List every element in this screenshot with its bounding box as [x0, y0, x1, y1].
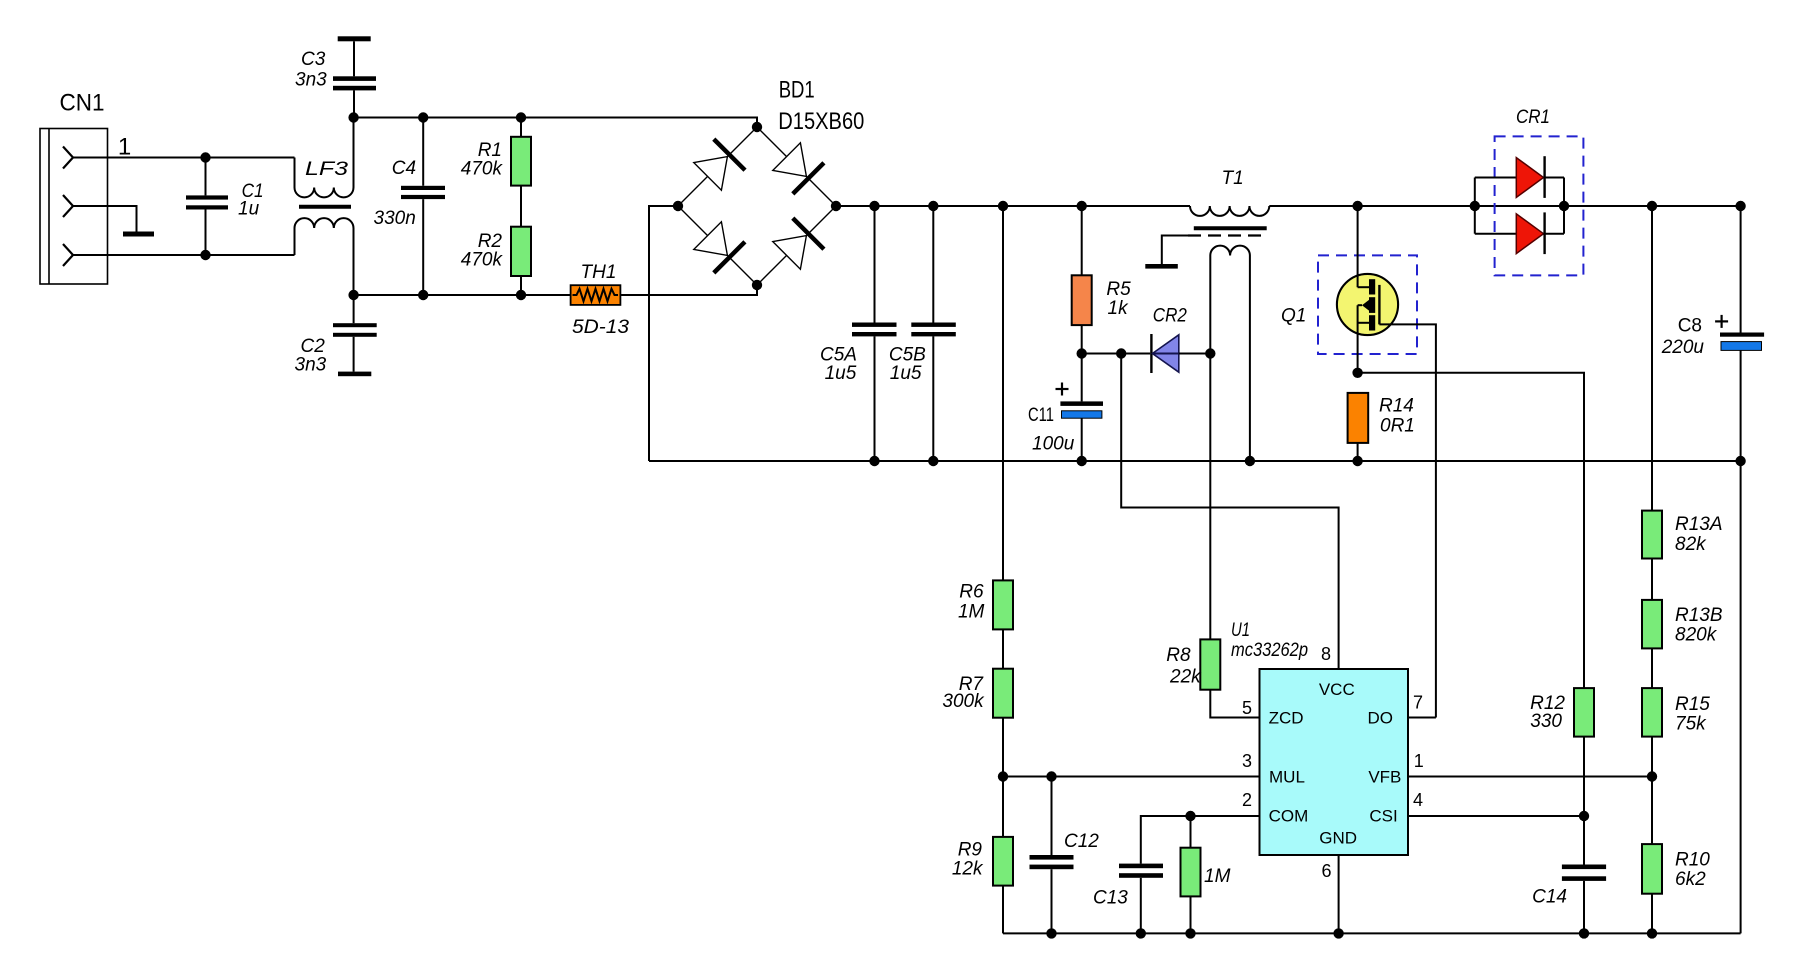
wire: top rail to bridge — [354, 118, 757, 128]
capacitor C2 — [295, 295, 377, 376]
svg-text:220u: 220u — [1661, 337, 1705, 358]
svg-text:1M: 1M — [1204, 866, 1231, 887]
diode BD1 bottom-right — [773, 218, 824, 269]
wire: DO pin 7 stub — [1408, 717, 1436, 719]
resistor R8 — [1166, 639, 1220, 689]
junction: C5A top — [869, 201, 879, 211]
junction: bridge bottom node — [752, 280, 762, 290]
wire: rail to R6 chain — [1002, 206, 1004, 580]
capacitor C13 — [1093, 864, 1163, 934]
svg-text:VCC: VCC — [1319, 680, 1355, 699]
svg-text:1: 1 — [118, 134, 131, 161]
svg-text:mc33262p: mc33262p — [1231, 640, 1308, 661]
svg-text:ZCD: ZCD — [1269, 709, 1304, 728]
diode BD1 bottom-left — [694, 222, 745, 273]
wire: R13B to R15 — [1651, 648, 1653, 688]
wire: MUL pin 3 line — [1003, 776, 1260, 778]
junction: CSI/R12/C14 node — [1579, 811, 1589, 821]
svg-text:3n3: 3n3 — [295, 355, 327, 376]
svg-text:820k: 820k — [1675, 625, 1718, 646]
junction: C2 top — [348, 290, 358, 300]
junction: C5B bottom — [928, 456, 938, 466]
junction: CR1 cathode node — [1559, 201, 1569, 211]
wire: rectified rail (right part) — [1269, 205, 1740, 207]
wire: GND pin 6 stub — [1338, 855, 1340, 934]
svg-text:7: 7 — [1413, 693, 1423, 713]
svg-text:TH1: TH1 — [581, 262, 617, 283]
svg-text:DO: DO — [1368, 709, 1394, 728]
thermistor TH1 — [571, 262, 630, 338]
svg-text:C3: C3 — [301, 49, 326, 70]
junction: bridge right node — [831, 201, 841, 211]
wire: VFB pin 1 line — [1408, 776, 1652, 778]
svg-text:GND: GND — [1319, 829, 1357, 848]
junction: C8 top — [1735, 201, 1745, 211]
svg-text:3: 3 — [1242, 751, 1252, 771]
inductor LF3 (common-mode choke) — [295, 118, 354, 296]
svg-text:CN1: CN1 — [60, 90, 105, 117]
svg-text:1: 1 — [1414, 751, 1424, 771]
svg-text:8: 8 — [1321, 644, 1331, 664]
svg-text:R8: R8 — [1166, 645, 1191, 666]
junction: C5B top — [928, 201, 938, 211]
wire: Q1 gate to U1 DO — [1379, 324, 1436, 717]
svg-text:330: 330 — [1530, 711, 1562, 732]
junction: Q1 drain at rail — [1352, 201, 1362, 211]
resistor R6 — [958, 580, 1013, 629]
capacitor C8 — [1661, 206, 1764, 461]
svg-text:1u5: 1u5 — [825, 363, 857, 384]
svg-text:R15: R15 — [1675, 694, 1710, 715]
capacitor C5A — [820, 206, 897, 461]
svg-text:5: 5 — [1242, 698, 1252, 718]
junction: C11 bottom — [1077, 456, 1087, 466]
wire: bottom row LF3 to TH1 — [354, 294, 571, 296]
junction: C13 bottom — [1136, 928, 1146, 938]
junction: C5A bottom — [869, 456, 879, 466]
svg-text:CR1: CR1 — [1516, 107, 1550, 128]
resistor R13A — [1642, 511, 1723, 559]
resistor R2 — [461, 227, 531, 295]
wire: divider chain from rail — [1651, 206, 1653, 511]
svg-text:3n3: 3n3 — [295, 70, 327, 91]
svg-text:C4: C4 — [392, 158, 416, 179]
svg-text:CR2: CR2 — [1153, 306, 1187, 327]
svg-text:T1: T1 — [1222, 168, 1244, 189]
svg-text:CSI: CSI — [1369, 807, 1397, 826]
junction: R5 at rail — [1077, 201, 1087, 211]
junction: C14 bottom — [1579, 928, 1589, 938]
wire: R13A to R13B — [1651, 559, 1653, 600]
wire: T1 aux winding return — [1249, 256, 1251, 462]
junction: R10 bottom — [1647, 928, 1657, 938]
wire: primary return rail — [649, 460, 1741, 462]
resistor 1M (COM network) — [1181, 816, 1231, 933]
svg-text:R10: R10 — [1675, 850, 1710, 871]
svg-text:COM: COM — [1269, 807, 1309, 826]
wire: T1 aux winding to CR2/R8 — [1209, 256, 1211, 640]
junction: T1 aux return at rail — [1245, 456, 1255, 466]
svg-text:300k: 300k — [942, 691, 985, 712]
wire: R1 to R2 — [520, 186, 522, 227]
diode CR1 bottom — [1516, 212, 1544, 254]
junction: R14 bottom — [1352, 456, 1362, 466]
wire: CN1 pin3 to LF3 bottom — [73, 254, 295, 256]
junction: R1 top — [516, 112, 526, 122]
bridge rectifier BD1 — [678, 77, 864, 286]
wire: right edge return — [1740, 461, 1742, 933]
capacitor C5B — [889, 206, 956, 461]
wire: VCC node (R5/C11/CR2) — [1082, 353, 1151, 355]
svg-text:75k: 75k — [1675, 713, 1707, 734]
resistor R12 — [1530, 688, 1594, 864]
svg-text:R13B: R13B — [1675, 605, 1723, 626]
ground (CN1 pin2) — [123, 232, 154, 237]
svg-text:470k: 470k — [461, 158, 504, 179]
wire: R15 to R10 — [1651, 737, 1653, 845]
wire: COM pin 2 line — [1141, 816, 1260, 864]
resistor R13B — [1642, 600, 1723, 649]
wire: ZCD pin 5 stub — [1210, 690, 1259, 718]
junction: C4 bottom — [418, 290, 428, 300]
svg-text:C11: C11 — [1028, 405, 1054, 426]
resistor R7 — [942, 669, 1013, 777]
junction: R7/R9 divider node — [998, 771, 1008, 781]
resistor R15 — [1642, 688, 1710, 737]
svg-text:Q1: Q1 — [1281, 306, 1306, 327]
junction: Q1 source node — [1352, 368, 1362, 378]
resistor R10 — [1642, 844, 1710, 933]
svg-text:1u: 1u — [238, 199, 260, 220]
wire: rectified rail (left part) — [836, 205, 1190, 207]
svg-text:12k: 12k — [952, 858, 984, 879]
junction: 1M bottom — [1185, 928, 1195, 938]
junction: R5/C11 node — [1077, 348, 1087, 358]
junction: CR2 anode / ZCD winding node — [1205, 348, 1215, 358]
capacitor C11 — [1028, 354, 1103, 462]
wire: CN1 pin2 to ground — [73, 206, 137, 232]
svg-text:MUL: MUL — [1269, 768, 1305, 787]
svg-text:1u5: 1u5 — [890, 363, 922, 384]
svg-text:22k: 22k — [1169, 667, 1202, 688]
junction: GND pin at ground rail — [1333, 928, 1343, 938]
capacitor C4 — [374, 118, 446, 296]
svg-text:6: 6 — [1321, 861, 1331, 881]
wire: ground rail — [1003, 932, 1741, 934]
svg-text:R5: R5 — [1106, 279, 1131, 300]
junction: VCC branch node — [1116, 348, 1126, 358]
wire: source sense line to R12 — [1358, 373, 1584, 688]
capacitor C12 — [1030, 777, 1100, 934]
svg-text:5D-13: 5D-13 — [572, 317, 629, 338]
junction: C1 bottom — [200, 250, 210, 260]
capacitor C3 — [295, 36, 376, 117]
junction: CR1 anode node — [1470, 201, 1480, 211]
junction: VFB divider node — [1647, 771, 1657, 781]
wire: CSI pin 4 line — [1408, 815, 1584, 817]
svg-text:VFB: VFB — [1368, 768, 1401, 787]
wire: VCC node to U1 pin 8 — [1121, 354, 1338, 670]
svg-text:D15XB60: D15XB60 — [778, 108, 864, 135]
junction: C1 top — [200, 152, 210, 162]
connector CN1 — [40, 90, 108, 285]
wire: TH1 to bridge bottom — [620, 285, 757, 295]
diode pair CR1 — [1475, 107, 1584, 275]
svg-text:C14: C14 — [1532, 887, 1567, 908]
svg-text:C8: C8 — [1678, 316, 1702, 337]
svg-text:LF3: LF3 — [305, 159, 349, 180]
svg-text:470k: 470k — [461, 249, 504, 270]
svg-text:0R1: 0R1 — [1380, 415, 1415, 436]
svg-text:R13A: R13A — [1675, 514, 1723, 535]
diode BD1 top-left — [694, 139, 745, 190]
svg-text:1M: 1M — [958, 601, 985, 622]
svg-text:U1: U1 — [1231, 620, 1250, 641]
wire: bridge negative to bottom rail — [649, 206, 678, 461]
op-amp U1 mc33262p (PFC controller IC) — [1231, 620, 1408, 855]
svg-text:6k2: 6k2 — [1675, 869, 1706, 890]
svg-text:C13: C13 — [1093, 888, 1128, 909]
resistor R14 — [1348, 393, 1415, 461]
capacitor C14 — [1532, 865, 1606, 934]
junction: output divider at rail — [1647, 201, 1657, 211]
diode BD1 top-right — [773, 143, 824, 194]
junction: C12 bottom — [1046, 928, 1056, 938]
transformer T1 — [1188, 168, 1269, 256]
wire: T1 shield to ground — [1162, 236, 1188, 265]
svg-text:82k: 82k — [1675, 534, 1707, 555]
junction: R6 chain at rail — [998, 201, 1008, 211]
junction: COM/1M node — [1185, 811, 1195, 821]
junction: R2 bottom — [516, 290, 526, 300]
svg-text:4: 4 — [1413, 790, 1423, 810]
transistor Q1 (MOSFET) — [1281, 206, 1417, 373]
svg-text:R14: R14 — [1379, 396, 1414, 417]
resistor R9 — [952, 777, 1013, 934]
diode CR1 top — [1516, 156, 1544, 198]
svg-text:R6: R6 — [959, 582, 984, 603]
resistor R5 — [1072, 206, 1131, 354]
wire: R6 to R7 — [1002, 629, 1004, 668]
svg-text:330n: 330n — [374, 208, 416, 229]
svg-text:BD1: BD1 — [779, 77, 815, 104]
junction: C12 top — [1046, 771, 1056, 781]
resistor R1 — [461, 118, 531, 186]
svg-text:2: 2 — [1242, 790, 1252, 810]
junction: bridge left node — [673, 201, 683, 211]
svg-text:1k: 1k — [1108, 298, 1130, 319]
ground (T1 shield) — [1145, 264, 1178, 269]
wire: CN1 pin1 to LF3 top — [73, 157, 295, 159]
svg-text:C12: C12 — [1064, 831, 1099, 852]
junction: C3/top rail — [348, 112, 358, 122]
svg-text:100u: 100u — [1032, 434, 1075, 455]
junction: C8 bottom — [1735, 456, 1745, 466]
junction: C4 top — [418, 112, 428, 122]
diode CR2 — [1151, 306, 1210, 374]
capacitor C1 — [186, 158, 264, 256]
junction: bridge top node — [752, 122, 762, 132]
